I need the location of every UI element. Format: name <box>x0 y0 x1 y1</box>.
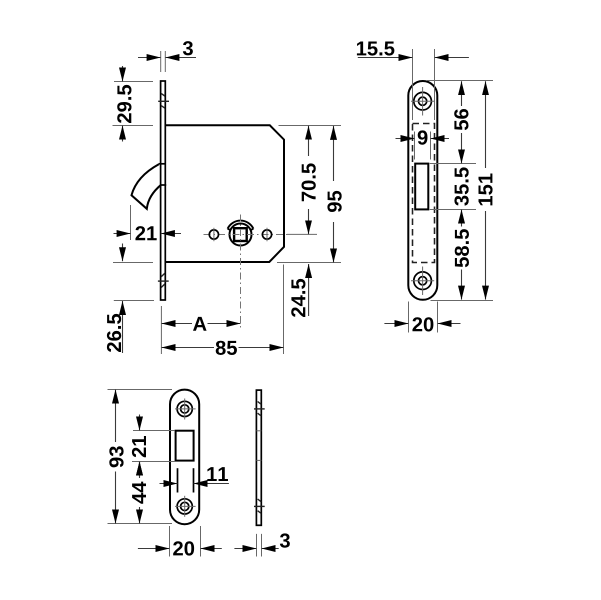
dim 21 arrows <box>114 233 182 235</box>
hook slot tick upper <box>159 163 166 165</box>
dim 35.5 ext line <box>430 209 476 211</box>
spindle hub circle <box>230 224 252 246</box>
dim 20 arrows <box>384 323 460 325</box>
strike side bar <box>256 390 261 525</box>
dim 70.5 ext lines <box>279 126 342 235</box>
strike plate centerline <box>184 392 186 520</box>
dim 93 lines <box>115 390 117 524</box>
dim 20 ext lines (top-right) <box>409 302 438 333</box>
dim 44 lines <box>139 462 141 524</box>
dim 85 lines <box>162 347 284 349</box>
right screw post circle <box>262 230 271 239</box>
dim 29.5 label <box>117 85 131 123</box>
dim 56 label <box>454 109 468 130</box>
dim 29.5 ext lines <box>113 82 154 126</box>
dim 26.5 label <box>107 314 121 352</box>
dim 56 lines <box>461 81 463 163</box>
dim 11 label <box>207 467 228 481</box>
dim 15.5 label <box>357 42 394 56</box>
dim 9 label <box>416 128 430 150</box>
strike bottom screw hole <box>175 496 196 517</box>
dim 15.5 ext lines <box>413 49 435 120</box>
dim 21 ext lines (strike) <box>132 431 175 462</box>
spindle square hole <box>234 228 247 241</box>
dim 58.5 label <box>455 229 469 267</box>
lock case hidden outline (dashed) <box>413 124 435 263</box>
lock body outline <box>166 125 285 262</box>
strike top screw hole <box>175 399 196 420</box>
dim 20 label <box>412 317 433 331</box>
dim 58.5 lines <box>461 210 463 300</box>
left screw post circle <box>209 230 218 239</box>
spindle hub top arc <box>228 221 254 231</box>
strike slot lines <box>178 468 194 492</box>
dim 56 ext lines <box>427 81 493 164</box>
dim 3 arrows (strike side) <box>234 548 278 550</box>
hub vertical centerline <box>240 215 242 331</box>
hook latch <box>132 164 162 209</box>
top screw hole <box>411 87 434 116</box>
dim 3 (faceplate thickness) ext lines <box>161 51 166 72</box>
dim A label <box>193 317 207 331</box>
dim 26.5 arrows <box>122 244 124 354</box>
dim 151 lines <box>485 81 487 299</box>
dim 95 ext line <box>277 262 341 264</box>
dim 21 arrows (strike) <box>139 415 141 477</box>
dim 29.5 arrows <box>122 66 124 142</box>
dim 15.5 arrows <box>358 57 469 59</box>
dim 20 ext lines (strike) <box>170 526 201 557</box>
dim 24.5 arrow <box>308 264 310 316</box>
strike cutout <box>176 431 194 461</box>
dim 95 lines <box>333 126 335 263</box>
dim 151 label <box>479 174 493 206</box>
faceplate break mark lower <box>158 273 169 287</box>
bottom screw hole <box>411 267 434 296</box>
dim 93 ext lines <box>108 390 173 524</box>
dim 26.5 ext lines <box>113 263 154 301</box>
strike side top screw mark <box>254 402 265 417</box>
dim 9 arrows <box>396 138 450 140</box>
dim 21 label (strike) <box>132 436 146 457</box>
dim 24.5 label <box>291 279 305 317</box>
faceplate break mark upper <box>158 94 169 109</box>
dim 44 label <box>132 482 146 504</box>
dim 93 label <box>109 446 123 467</box>
strike side cutout lines <box>256 431 261 461</box>
dim 3 arrows <box>138 57 196 59</box>
left screw post tick <box>213 228 215 241</box>
dim 85 label <box>216 341 237 355</box>
faceplate side view <box>161 81 166 300</box>
dim 35.5 label <box>454 167 468 205</box>
hub horizontal centerline <box>204 234 288 236</box>
dim 3 ext lines (strike side) <box>257 534 262 557</box>
strike plate stadium outline <box>170 390 199 525</box>
dim 70.5 label <box>301 163 315 201</box>
dim 20 label (strike) <box>173 541 194 555</box>
dim 20 arrows (strike) <box>138 548 222 550</box>
faceplate stadium outline <box>408 81 437 300</box>
dim A ext lines <box>160 306 162 354</box>
hook cutout <box>415 164 428 210</box>
dim 85 ext line <box>283 265 285 355</box>
strike side bottom screw mark <box>254 499 265 514</box>
dim 3 label <box>183 41 193 55</box>
dim 21 ext line <box>130 205 132 240</box>
dim 11 arrows <box>160 483 229 485</box>
dim 21 label <box>135 226 156 240</box>
dim 70.5 lines <box>308 126 310 235</box>
hook slot tick lower <box>161 184 166 186</box>
dim A lines <box>162 323 241 325</box>
dim 3 label (strike side) <box>280 533 290 547</box>
dim 151 ext line <box>431 300 494 302</box>
dim 9 ext lines <box>415 132 431 160</box>
dim 95 label <box>327 191 341 212</box>
faceplate centerline <box>422 84 424 297</box>
right screw post tick <box>266 228 268 241</box>
